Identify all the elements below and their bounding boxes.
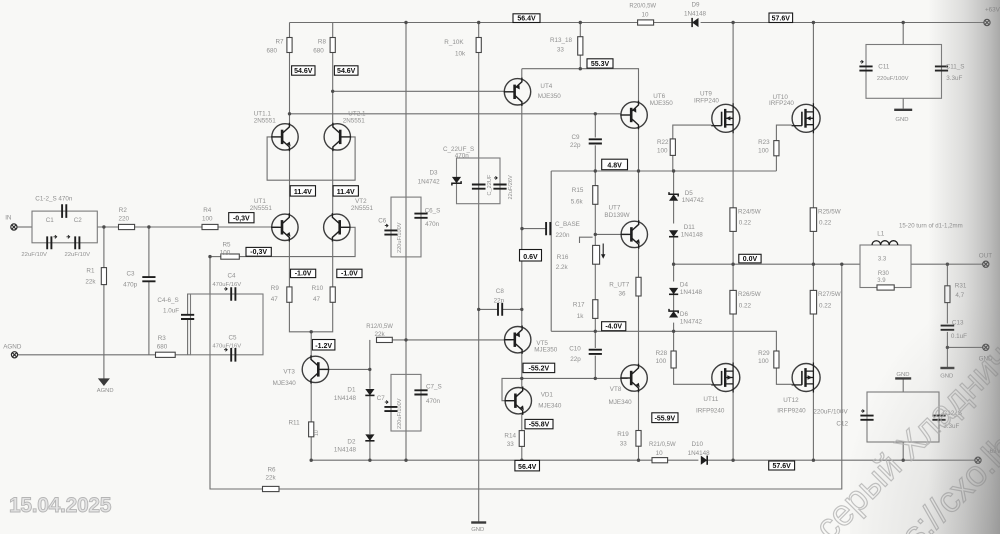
svg-text:57.6V: 57.6V	[773, 463, 792, 470]
svg-text:R_UT7: R_UT7	[609, 281, 629, 288]
capacitor C2 22uF	[75, 236, 79, 249]
wire C11 box feed	[902, 23, 904, 45]
svg-text:BD139W: BD139W	[604, 212, 629, 219]
wire +63V rail after D9	[701, 22, 984, 24]
svg-text:22uF/10V: 22uF/10V	[21, 252, 47, 258]
wire UT7 base link	[595, 233, 628, 235]
svg-text:10k: 10k	[455, 51, 466, 58]
wire R12 left drop	[369, 340, 371, 370]
svg-text:1N4742: 1N4742	[418, 179, 441, 186]
svg-text:D4: D4	[680, 282, 689, 289]
wire UT7 collector	[638, 171, 640, 221]
capacitor C11 220uF	[859, 66, 872, 70]
svg-text:R24/5W: R24/5W	[738, 208, 761, 215]
svg-text:C6_S: C6_S	[425, 207, 441, 214]
wire VT3 base line	[322, 368, 370, 370]
svg-text:3.3: 3.3	[878, 257, 887, 263]
svg-text:1N4742: 1N4742	[682, 197, 705, 204]
svg-text:470n: 470n	[455, 153, 470, 160]
trimmer R16 2.2k	[593, 245, 600, 264]
wire R13 drop	[579, 23, 581, 37]
wire C4-6_S to AGND	[187, 319, 189, 355]
svg-text:R14: R14	[504, 433, 516, 440]
svg-text:55.3V: 55.3V	[591, 61, 610, 68]
node 4.8V	[602, 159, 628, 170]
node 54.6V right	[334, 66, 358, 75]
wire +56V top rail	[290, 22, 638, 24]
capacitor C3 470p	[142, 277, 155, 281]
wire R9 R10 join	[289, 302, 332, 332]
resistor R24 5W 0.22	[730, 208, 736, 232]
wire VT2 emitter to R10	[332, 241, 334, 287]
wire UT10 source to R25	[812, 132, 814, 208]
zener D6 1N4742	[669, 311, 678, 317]
resistor R17 1k	[593, 300, 598, 319]
svg-text:R17: R17	[573, 302, 585, 309]
wire D5 chain top	[673, 171, 675, 194]
wire R31 tap	[946, 264, 948, 286]
resistor R12 0.5W 22k	[377, 337, 393, 342]
svg-text:36: 36	[619, 290, 627, 297]
capacitor C9 22p	[589, 139, 602, 143]
svg-text:C2: C2	[74, 217, 83, 224]
svg-text:L1: L1	[877, 231, 885, 238]
svg-text:22k: 22k	[266, 475, 277, 482]
wire R13 to 55.3V rail	[579, 55, 581, 69]
wire feedback line	[210, 257, 263, 489]
node 0.6V	[520, 250, 542, 262]
box C12	[867, 392, 939, 442]
wire R12 to VT5 base	[392, 339, 511, 341]
svg-text:-55.9V: -55.9V	[655, 416, 676, 423]
transistor VT3 MJE340	[302, 356, 328, 382]
inductor L1 3.3	[872, 241, 898, 245]
resistor R3 680	[156, 352, 176, 357]
capacitor C7_S 470n	[414, 390, 427, 394]
wire R27 to UT12 source	[812, 314, 814, 364]
wire C11 box gnd stub	[902, 98, 904, 108]
transistor VT8 MJE340	[621, 365, 647, 391]
svg-text:AGND: AGND	[97, 388, 114, 394]
svg-text:-0,3V: -0,3V	[233, 216, 250, 223]
svg-text:VT3: VT3	[283, 368, 295, 375]
resistor R_10K bleeder	[476, 38, 481, 53]
capacitor C5 470uF	[231, 348, 235, 362]
wire 55.3V emitter rail	[522, 69, 639, 102]
svg-text:10: 10	[656, 450, 664, 457]
wire R4 to UT1 base	[218, 226, 279, 228]
wire GND node to terminal	[947, 346, 982, 348]
svg-text:UT12: UT12	[783, 397, 799, 404]
svg-text:15.04.2025: 15.04.2025	[9, 494, 112, 517]
resistor R21 0.5W 10	[652, 458, 668, 463]
svg-text:220n: 220n	[556, 232, 571, 239]
svg-text:R10: R10	[312, 285, 324, 292]
svg-text:UT2.1: UT2.1	[348, 111, 366, 118]
svg-text:D1: D1	[347, 387, 356, 394]
wire R31 to C13	[946, 303, 948, 324]
resistor R25 5W 0.22	[810, 208, 816, 232]
diode D4 1N4148	[669, 288, 678, 294]
transistor VT2 2N5551	[324, 214, 350, 240]
wire output node 0.0V line	[674, 263, 860, 265]
wire IN to input box	[17, 226, 32, 228]
svg-text:22k: 22k	[85, 278, 96, 285]
svg-text:0.22: 0.22	[739, 219, 752, 226]
wire output to D4	[673, 264, 675, 281]
wire R8 collector line	[332, 23, 334, 38]
wire R24 to output	[732, 231, 734, 290]
box L1 R30	[860, 245, 911, 288]
transistor VD1 MJE340	[505, 388, 531, 414]
svg-text:R29: R29	[758, 350, 770, 357]
svg-text:R9: R9	[271, 285, 280, 292]
wire join to VT3 collector	[310, 332, 312, 357]
wire R23 to UT10 gate	[776, 125, 791, 141]
transistor UT6 MJE350	[621, 102, 647, 128]
wire VD1 to R14	[521, 414, 523, 431]
svg-text:100: 100	[758, 147, 769, 154]
svg-text:11.4V: 11.4V	[337, 189, 355, 196]
transistor UT1.1 2N5551	[272, 124, 298, 150]
svg-text:100: 100	[220, 249, 231, 256]
svg-text:MJE350: MJE350	[538, 93, 562, 100]
node -0.3V lower	[246, 247, 271, 256]
wire -56V bottom rail	[311, 459, 652, 461]
svg-text:0.22: 0.22	[739, 302, 752, 309]
diode D11 1N4148	[669, 230, 678, 236]
resistor R1 22k	[101, 268, 106, 285]
terminal IN	[11, 224, 17, 230]
wire R7 to UT1.1	[289, 53, 291, 124]
capacitor C6 220uF	[384, 230, 397, 234]
diode D2 1N4148	[365, 434, 374, 440]
svg-text:-55.2V: -55.2V	[529, 366, 550, 373]
resistor R5 100	[221, 254, 240, 259]
input coupling box C1 C2	[32, 211, 97, 243]
svg-text:C7_S: C7_S	[426, 384, 442, 391]
svg-text:680: 680	[267, 48, 278, 55]
resistor R29 100	[774, 351, 779, 368]
svg-text:C4-6_S: C4-6_S	[157, 297, 178, 304]
ground GND main	[471, 521, 486, 523]
wire R23 gate link	[775, 156, 777, 171]
wire UT7 emitter to R_UT7	[638, 248, 640, 277]
svg-text:C1-2_S 470n: C1-2_S 470n	[35, 195, 73, 202]
svg-text:33: 33	[620, 441, 628, 448]
svg-text:R22: R22	[657, 139, 669, 146]
svg-text:22uF/10V: 22uF/10V	[65, 252, 91, 258]
node -1.2V	[312, 340, 335, 351]
svg-text:2N5551: 2N5551	[351, 205, 374, 212]
svg-text:MJE350: MJE350	[650, 100, 674, 107]
resistor R15 5.6k	[593, 186, 598, 205]
capacitor C7 220uF	[384, 407, 397, 411]
wire C12 box to rail	[902, 442, 904, 460]
node -55.2V	[523, 363, 555, 372]
svg-text:C11: C11	[878, 64, 890, 71]
box D3 C_22UF	[457, 158, 501, 204]
capacitor C_22UF 22uF	[472, 185, 486, 189]
ground GND zobel	[940, 367, 954, 369]
node 56.4V top	[513, 14, 540, 23]
wire feedback to output	[279, 264, 842, 489]
svg-text:1N4148: 1N4148	[334, 395, 357, 402]
wire UT11 drain to rail	[732, 391, 734, 460]
terminal -63V	[975, 457, 981, 463]
wire D1 chain upper	[369, 369, 371, 388]
wire VT8 collector	[638, 331, 640, 364]
wire D1-D2 link	[369, 396, 371, 434]
wire C9 drop	[594, 114, 596, 138]
svg-text:470n: 470n	[426, 398, 441, 405]
svg-text:220uF/100V: 220uF/100V	[813, 408, 848, 415]
svg-text:220uF/100V: 220uF/100V	[397, 222, 403, 253]
wire UT9 source to R24	[732, 132, 734, 208]
svg-text:57.6V: 57.6V	[772, 15, 791, 22]
node 11.4V left	[290, 186, 315, 196]
svg-text:220: 220	[119, 215, 130, 222]
wire VT8 emitter to R19	[638, 391, 640, 430]
wire AGND rail to C4 box	[175, 354, 190, 356]
wire C_BASE left	[522, 228, 546, 230]
resistor R4 100	[202, 224, 218, 229]
svg-text:R12/0,5W: R12/0,5W	[366, 324, 393, 330]
svg-text:22p: 22p	[494, 297, 505, 304]
svg-text:R5: R5	[223, 241, 232, 248]
svg-text:470uF/16V: 470uF/16V	[212, 344, 241, 350]
resistor R10 47	[330, 287, 335, 302]
wire C4-6_S link	[188, 294, 191, 315]
svg-text:R2: R2	[119, 207, 128, 214]
wire R16 to R17	[594, 264, 596, 300]
svg-text:D6: D6	[680, 311, 689, 318]
wire D6 to -4.0V	[673, 323, 675, 332]
svg-text:470uF/16V: 470uF/16V	[212, 282, 241, 288]
wire R26 to UT11 source	[732, 314, 734, 364]
svg-text:R8: R8	[318, 39, 327, 46]
svg-text:10: 10	[314, 430, 320, 436]
svg-text:54.6V: 54.6V	[294, 68, 313, 75]
resistor R22 100	[670, 139, 675, 156]
svg-text:4.8V: 4.8V	[607, 163, 622, 170]
resistor R7 680	[287, 38, 292, 53]
wire C8 right	[502, 308, 522, 310]
svg-text:33: 33	[507, 441, 515, 448]
node 57.6V top	[769, 13, 793, 23]
svg-text:0.22: 0.22	[819, 219, 832, 226]
resistor R28 100	[671, 351, 676, 368]
resistor R14 33	[519, 431, 524, 447]
svg-text:2N5551: 2N5551	[254, 118, 277, 125]
wire input box to R2	[97, 226, 118, 228]
capacitor C1-2_S 470n film	[62, 204, 66, 218]
transistor VT5 MJE350	[505, 327, 531, 353]
svg-text:R19: R19	[617, 431, 629, 438]
svg-text:VD1: VD1	[541, 392, 554, 399]
svg-text:D9: D9	[692, 1, 701, 8]
svg-text:680: 680	[313, 48, 324, 55]
wire cascode base bias	[267, 137, 355, 180]
svg-text:-0,3V: -0,3V	[250, 249, 267, 256]
svg-text:1N4148: 1N4148	[684, 10, 707, 17]
mosfet UT9 IRFP240	[712, 104, 740, 132]
svg-text:C3: C3	[127, 271, 136, 278]
resistor R31 4.7	[945, 286, 950, 303]
svg-text:IRFP9240: IRFP9240	[777, 408, 806, 415]
wire top rail R20-D9 link	[654, 22, 692, 24]
svg-text:UT7: UT7	[609, 205, 621, 212]
ground GND C11	[894, 109, 912, 111]
capacitor C8 22p	[498, 303, 502, 316]
svg-text:D11: D11	[684, 224, 696, 231]
svg-text:C1: C1	[46, 217, 55, 224]
svg-text:54.6V: 54.6V	[337, 68, 356, 75]
svg-text:22p: 22p	[570, 142, 581, 149]
svg-text:470n: 470n	[425, 221, 440, 228]
svg-text:C8: C8	[496, 288, 505, 295]
node 56.4V bottom	[515, 460, 540, 471]
wire C3 branch lower	[148, 282, 150, 355]
resistor R9 47	[287, 287, 292, 302]
wire R8 to UT2.1	[332, 53, 334, 124]
wire D2 to bottom rail	[369, 441, 371, 460]
svg-text:47: 47	[271, 296, 279, 303]
wire UT4 base line	[333, 90, 505, 92]
svg-text:C7: C7	[377, 395, 386, 402]
wire AGND rail	[18, 354, 156, 356]
svg-text:MJE340: MJE340	[273, 380, 297, 387]
wire bias box left edge	[550, 171, 552, 331]
svg-text:R_10K: R_10K	[444, 39, 464, 46]
box C7	[391, 374, 421, 431]
wire 4.8V line	[551, 170, 776, 172]
svg-text:1N4148: 1N4148	[334, 447, 357, 454]
svg-text:33: 33	[557, 46, 565, 53]
wire C13 to GND node	[946, 332, 948, 348]
wire C3 branch upper	[148, 227, 150, 277]
wire D11 to output	[673, 237, 675, 264]
transistor UT2.1 2N5551	[324, 124, 350, 150]
ground AGND below R1	[99, 379, 109, 385]
svg-text:56.4V: 56.4V	[518, 464, 537, 471]
capacitor 22uF/26V electrolytic	[493, 185, 506, 189]
svg-text:IRFP240: IRFP240	[769, 100, 794, 107]
node 55.3V	[587, 59, 613, 68]
svg-text:2N5551: 2N5551	[343, 118, 366, 125]
svg-text:GND: GND	[471, 527, 484, 533]
resistor R2 220	[119, 224, 135, 229]
svg-text:2N5551: 2N5551	[250, 205, 273, 212]
svg-text:R13_18: R13_18	[550, 37, 573, 44]
svg-text:3.9: 3.9	[877, 278, 886, 284]
svg-text:220uF/100V: 220uF/100V	[397, 398, 403, 429]
node -0.3V upper	[229, 213, 254, 223]
mosfet UT12 IRFP9240	[792, 364, 820, 392]
svg-text:R15: R15	[572, 187, 584, 194]
resistor R11	[309, 422, 314, 437]
node 11.4V right	[333, 186, 358, 196]
wire R5 to VT2 base	[239, 227, 355, 256]
svg-text:47: 47	[313, 296, 321, 303]
resistor R13_18 33	[578, 37, 583, 55]
svg-text:100: 100	[656, 358, 667, 365]
svg-text:R4: R4	[203, 207, 212, 214]
capacitor C1 22uF	[47, 236, 51, 249]
resistor R23 100	[774, 141, 779, 156]
wire UT9 drain	[732, 23, 734, 105]
node junction dots	[102, 21, 949, 462]
mosfet UT10 IRFP240	[792, 104, 820, 132]
svg-text:470p: 470p	[123, 282, 138, 289]
svg-text:R25/5W: R25/5W	[818, 208, 841, 215]
wire VT3 emitter to R11	[310, 383, 312, 422]
svg-text:R16: R16	[557, 254, 569, 261]
wire C10 upper	[594, 331, 596, 348]
terminal AGND	[11, 352, 17, 358]
svg-text:IRFP9240: IRFP9240	[696, 407, 725, 414]
resistor R6 22k	[263, 486, 280, 491]
resistor R26 5W 0.22	[730, 290, 736, 314]
terminal GND	[983, 344, 989, 350]
wire bleeder to GND	[478, 53, 480, 523]
svg-text:100: 100	[202, 215, 213, 222]
svg-text:R7: R7	[276, 39, 285, 46]
svg-text:R20/0,5W: R20/0,5W	[629, 3, 656, 9]
transistor UT7 BD139W	[621, 221, 647, 247]
wire C9 to 4.8V	[594, 145, 596, 185]
svg-text:C_BASE: C_BASE	[555, 221, 580, 228]
svg-text:GND: GND	[895, 117, 908, 123]
box C6	[391, 197, 421, 257]
node -1.0V left	[291, 269, 316, 277]
capacitor C13 0.1uF	[941, 326, 955, 330]
svg-text:11.4V: 11.4V	[294, 189, 312, 196]
svg-text:10: 10	[642, 12, 650, 19]
wire R22 to UT9 gate	[673, 125, 712, 139]
svg-text:R28: R28	[656, 350, 668, 357]
wire mid decouple column	[405, 23, 407, 461]
node 54.6V left	[292, 66, 315, 75]
svg-text:-1.0V: -1.0V	[295, 271, 312, 278]
wire R1 branch	[103, 227, 105, 379]
svg-text:R3: R3	[158, 335, 167, 342]
svg-text:-4.0V: -4.0V	[605, 324, 622, 331]
node -4.0V	[602, 322, 626, 331]
resistor R_UT7 36	[636, 277, 641, 296]
wire UT2.1 emitter to VT2	[332, 150, 334, 214]
resistor R30 3.9	[877, 285, 894, 290]
svg-text:56.4V: 56.4V	[517, 15, 536, 22]
svg-text:R27/5W: R27/5W	[818, 291, 841, 298]
node -55.9V	[652, 413, 678, 423]
svg-text:MJE350: MJE350	[534, 346, 558, 353]
svg-text:680: 680	[157, 343, 168, 350]
diode D10 1N4148	[701, 456, 707, 465]
svg-text:C5: C5	[229, 334, 238, 341]
capacitor C10 22p	[589, 350, 602, 354]
wire R25 to output	[812, 231, 814, 290]
wire R_UT7 to -4.0V	[638, 296, 640, 331]
box C4 C5	[191, 294, 264, 355]
svg-text:D10: D10	[692, 441, 704, 448]
svg-text:UT9: UT9	[700, 90, 712, 97]
svg-text:C4: C4	[228, 273, 237, 280]
diode D9 1N4148	[692, 18, 698, 27]
wire R5 drop to C4 box	[209, 257, 211, 294]
svg-text:R6: R6	[268, 466, 277, 473]
transistor UT4 MJE350	[504, 79, 530, 105]
